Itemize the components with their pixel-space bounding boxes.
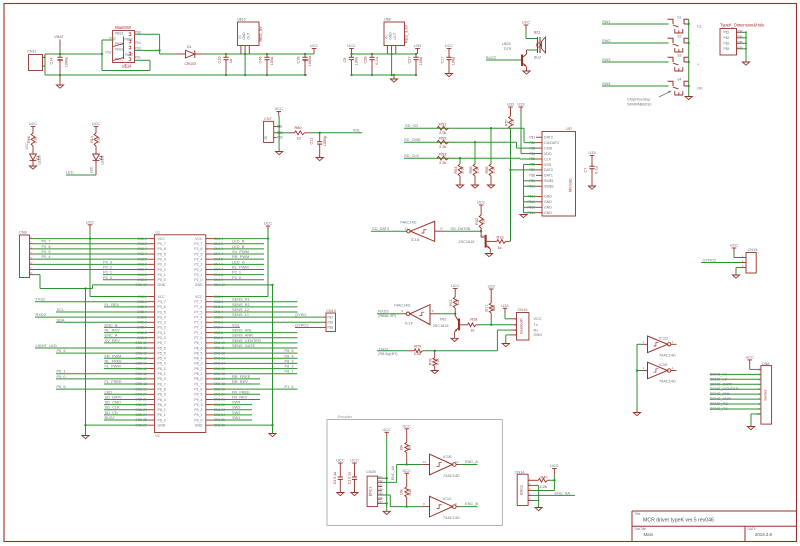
svg-text:R32: R32	[475, 218, 479, 225]
svg-text:GYRO2: GYRO2	[703, 257, 717, 262]
svg-text:P1_7: P1_7	[194, 382, 202, 386]
svg-text:BZ1: BZ1	[534, 31, 540, 35]
svg-text:P$8: P$8	[529, 174, 535, 178]
svg-text:P$3: P$3	[328, 326, 334, 330]
svg-text:R56: R56	[485, 167, 489, 174]
svg-text:C3 0.1u: C3 0.1u	[333, 472, 337, 485]
svg-text:U$16: U$16	[237, 18, 246, 22]
svg-text:R52: R52	[439, 137, 446, 141]
svg-text:ENC2: ENC2	[520, 485, 524, 495]
svg-text:PS3: PS3	[110, 37, 116, 41]
svg-text:P5_7: P5_7	[158, 341, 166, 345]
svg-text:P$1: P$1	[724, 31, 730, 35]
svg-text:IC1D: IC1D	[659, 336, 668, 341]
svg-text:UCC: UCC	[445, 43, 454, 48]
svg-text:VOL: VOL	[232, 322, 241, 327]
svg-text:100u: 100u	[419, 57, 423, 65]
svg-text:UCC: UCC	[92, 121, 101, 126]
svg-text:P9_2: P9_2	[194, 408, 202, 412]
svg-text:BUZ: BUZ	[534, 56, 542, 60]
svg-text:S4: S4	[677, 78, 681, 82]
svg-text:GYRO: GYRO	[295, 312, 306, 317]
svg-text:3.3k: 3.3k	[476, 166, 480, 173]
svg-text:P2_2: P2_2	[194, 268, 202, 272]
svg-text:TXD2: TXD2	[36, 297, 46, 302]
svg-text:P0_0: P0_0	[103, 275, 113, 280]
svg-text:P9_5: P9_5	[194, 393, 202, 397]
svg-text:3.3k: 3.3k	[435, 358, 439, 365]
svg-text:C28: C28	[364, 57, 368, 64]
svg-text:SD_CD: SD_CD	[405, 123, 418, 128]
svg-text:LED3: LED3	[100, 156, 104, 165]
svg-text:VOL: VOL	[353, 128, 362, 133]
svg-text:CN20: CN20	[366, 469, 377, 474]
svg-text:P6_5: P6_5	[158, 393, 166, 397]
svg-text:R9: R9	[408, 445, 412, 450]
svg-text:C1 0.1u: C1 0.1u	[347, 472, 351, 485]
svg-text:P0_4: P0_4	[42, 254, 52, 259]
svg-text:P5_3: P5_3	[158, 362, 166, 366]
svg-text:PS6: PS6	[135, 31, 141, 35]
svg-text:P2_3: P2_3	[194, 263, 202, 267]
svg-text:2.2k: 2.2k	[439, 145, 446, 149]
svg-text:CN8: CN8	[762, 361, 770, 366]
svg-text:R10: R10	[408, 489, 412, 496]
svg-text:CN14: CN14	[515, 469, 526, 474]
svg-text:P6_3: P6_3	[158, 403, 166, 407]
svg-text:SW1: SW1	[232, 415, 240, 420]
svg-text:SENS_R1: SENS_R1	[710, 406, 728, 411]
svg-text:Tx: Tx	[534, 322, 538, 327]
svg-text:P0_2: P0_2	[158, 268, 166, 272]
svg-text:R77: R77	[485, 305, 489, 312]
svg-text:MCR driver typeK ver.5 rev046: MCR driver typeK ver.5 rev046	[643, 518, 714, 524]
svg-text:P6_2: P6_2	[158, 408, 166, 412]
svg-text:U33: U33	[507, 102, 514, 107]
svg-text:P9_3: P9_3	[194, 403, 202, 407]
svg-text:UCC: UCC	[274, 106, 283, 111]
svg-text:SCL: SCL	[57, 307, 65, 312]
svg-text:CD/DAT3: CD/DAT3	[544, 141, 559, 145]
svg-text:OK: OK	[697, 86, 703, 91]
svg-text:DAT2: DAT2	[544, 136, 553, 140]
svg-text:C46: C46	[259, 57, 263, 64]
svg-text:R51: R51	[439, 123, 446, 127]
svg-text:P6_7: P6_7	[158, 382, 166, 386]
svg-text:UCC: UCC	[347, 43, 356, 48]
svg-text:P$2: P$2	[328, 321, 334, 325]
svg-text:SD_CMD: SD_CMD	[404, 137, 421, 142]
svg-text:1k: 1k	[470, 328, 474, 332]
svg-text:P$3: P$3	[277, 136, 283, 140]
svg-text:TypeK_Dimension&Hole: TypeK_Dimension&Hole	[720, 23, 765, 28]
svg-text:P0_6: P0_6	[158, 247, 166, 251]
svg-text:IC1B: IC1B	[443, 454, 452, 459]
svg-text:P2_7: P2_7	[194, 242, 202, 246]
svg-text:RXD2: RXD2	[36, 312, 46, 317]
svg-text:VCC: VCC	[158, 237, 166, 241]
svg-text:R14: R14	[90, 136, 94, 143]
svg-text:P7_7: P7_7	[194, 300, 202, 304]
svg-text:2.2k: 2.2k	[439, 161, 446, 165]
svg-text:SENS_GATE: SENS_GATE	[232, 343, 255, 348]
svg-text:P8_4: P8_4	[194, 357, 202, 361]
svg-text:P8_2: P8_2	[194, 367, 202, 371]
svg-text:P7_6: P7_6	[194, 305, 202, 309]
svg-text:100u: 100u	[270, 57, 274, 65]
svg-text:P$3: P$3	[724, 42, 730, 46]
svg-text:IC1F: IC1F	[405, 320, 414, 325]
svg-text:2.2k: 2.2k	[540, 485, 547, 489]
svg-text:12: 12	[405, 227, 409, 231]
svg-text:C16: C16	[218, 57, 222, 64]
svg-text:C7: C7	[584, 168, 588, 173]
svg-text:PS1: PS1	[135, 56, 141, 60]
svg-text:LED: LED	[66, 170, 74, 175]
svg-text:R79: R79	[414, 344, 421, 348]
svg-text:P$2: P$2	[737, 29, 743, 33]
svg-text:P3_7: P3_7	[158, 300, 166, 304]
svg-text:ENC_AA: ENC_AA	[391, 465, 395, 480]
svg-text:CN10: CN10	[518, 307, 529, 312]
svg-text:CN11: CN11	[27, 49, 37, 54]
svg-text:VCC: VCC	[195, 237, 203, 241]
svg-text:SW3: SW3	[602, 57, 610, 62]
svg-text:DAT1: DAT1	[544, 174, 553, 178]
svg-text:PAS3: PAS3	[115, 48, 123, 52]
svg-text:S3: S3	[677, 54, 681, 58]
svg-text:ENC1: ENC1	[369, 487, 373, 497]
svg-text:UCC: UCC	[350, 458, 359, 463]
svg-text:P8_6: P8_6	[194, 346, 202, 350]
svg-text:OUT: OUT	[246, 33, 250, 40]
svg-text:100u: 100u	[452, 57, 456, 65]
svg-text:DAT0: DAT0	[544, 168, 553, 172]
svg-text:P6_4: P6_4	[158, 398, 166, 402]
svg-text:VSS: VSS	[544, 163, 552, 167]
svg-text:3.3k: 3.3k	[492, 166, 496, 173]
svg-text:U33: U33	[588, 150, 595, 155]
svg-text:TR2: TR2	[439, 317, 446, 321]
svg-text:UCC: UCC	[550, 463, 559, 468]
svg-text:P5_5: P5_5	[158, 351, 166, 355]
svg-text:P3_2: P3_2	[158, 326, 166, 330]
svg-text:R55: R55	[469, 167, 473, 174]
svg-text:DATE: DATE	[748, 527, 756, 531]
svg-text:P$1: P$1	[328, 315, 334, 319]
svg-text:ENC_A: ENC_A	[465, 459, 478, 464]
svg-text:ENC_AA: ENC_AA	[555, 490, 571, 495]
svg-text:UCC: UCC	[336, 458, 345, 463]
svg-text:C18: C18	[297, 57, 301, 64]
svg-text:LED5: LED5	[37, 156, 41, 165]
svg-text:GYRO2: GYRO2	[295, 322, 309, 327]
svg-text:PS4: PS4	[135, 41, 141, 45]
svg-text:ENC_B: ENC_B	[465, 501, 478, 506]
svg-text:P7_5: P7_5	[194, 310, 202, 314]
svg-text:P2_4: P2_4	[194, 257, 202, 261]
svg-text:Bluetooth: Bluetooth	[520, 318, 524, 333]
svg-text:BUZZ: BUZZ	[105, 415, 116, 420]
svg-text:U33: U33	[488, 284, 495, 289]
svg-text:D1: D1	[187, 45, 191, 49]
svg-text:P9_1: P9_1	[194, 413, 202, 417]
svg-text:3.3k: 3.3k	[34, 136, 38, 143]
svg-text:SW$2: SW$2	[544, 185, 554, 189]
svg-text:P$6: P$6	[378, 497, 383, 500]
svg-text:IC1C: IC1C	[443, 496, 452, 501]
svg-text:0.1u: 0.1u	[375, 57, 379, 64]
svg-text:100u: 100u	[355, 57, 359, 65]
svg-text:VCC: VCC	[158, 295, 166, 299]
svg-text:10k: 10k	[456, 299, 460, 305]
svg-text:P2_0: P2_0	[194, 278, 202, 282]
svg-text:UCC: UCC	[86, 220, 95, 225]
svg-text:BUZZ: BUZZ	[486, 55, 497, 60]
svg-text:U33: U33	[414, 43, 421, 48]
svg-text:2.2k: 2.2k	[439, 131, 446, 135]
svg-text:CN15: CN15	[748, 247, 758, 252]
svg-text:U33: U33	[517, 102, 524, 107]
svg-text:UCC: UCC	[310, 43, 319, 48]
svg-text:P$4: P$4	[378, 489, 383, 492]
svg-text:SD_DAT0: SD_DAT0	[372, 226, 390, 231]
svg-text:GND: GND	[544, 211, 552, 215]
svg-text:UCC: UCC	[730, 243, 739, 248]
svg-text:P$6: P$6	[737, 34, 743, 38]
svg-text:SW1: SW1	[602, 19, 610, 24]
svg-text:P9_4: P9_4	[194, 398, 202, 402]
svg-text:LED: LED	[89, 166, 93, 173]
svg-text:UCC: UCC	[522, 20, 531, 25]
svg-text:1000p: 1000p	[323, 136, 327, 147]
svg-text:P8_5: P8_5	[194, 351, 202, 355]
svg-text:P$2: P$2	[724, 36, 730, 40]
svg-text:(R8&lt;-BT): (R8&lt;-BT)	[378, 314, 396, 318]
svg-text:MainSW: MainSW	[115, 25, 131, 30]
svg-text:R53: R53	[439, 153, 446, 157]
svg-text:GND: GND	[195, 283, 203, 287]
svg-text:(R8-&gt;BT): (R8-&gt;BT)	[378, 352, 397, 356]
svg-text:R28: R28	[470, 317, 477, 321]
svg-text:FL_REV: FL_REV	[105, 302, 120, 307]
svg-text:R80: R80	[295, 126, 302, 130]
svg-text:P6_1: P6_1	[158, 413, 166, 417]
svg-text:10k: 10k	[482, 218, 486, 224]
svg-text:1k: 1k	[498, 246, 502, 250]
svg-text:R40: R40	[541, 476, 548, 480]
svg-text:IC1A: IC1A	[411, 237, 420, 242]
svg-text:C14: C14	[50, 58, 54, 65]
svg-text:P0_1: P0_1	[158, 273, 166, 277]
svg-text:P$4: P$4	[529, 152, 535, 156]
svg-text:Title: Title	[635, 512, 641, 516]
svg-text:GND: GND	[544, 195, 552, 199]
svg-text:P1_6: P1_6	[285, 384, 294, 389]
svg-text:LIGHT_LED: LIGHT_LED	[36, 343, 57, 348]
svg-text:SD_CLK: SD_CLK	[404, 153, 420, 158]
svg-text:1000u: 1000u	[308, 56, 312, 67]
svg-text:10: 10	[455, 460, 459, 464]
svg-text:3.3k: 3.3k	[461, 166, 465, 173]
svg-text:JS: JS	[264, 136, 268, 140]
svg-text:TR1: TR1	[480, 235, 487, 239]
svg-text:10: 10	[297, 137, 301, 141]
svg-text:P7_0: P7_0	[194, 336, 202, 340]
svg-text:CLK: CLK	[544, 157, 552, 161]
svg-text:RR_REV: RR_REV	[232, 379, 248, 384]
svg-text:R54: R54	[454, 167, 458, 174]
svg-text:P0_3: P0_3	[158, 263, 166, 267]
svg-text:2SC1815: 2SC1815	[433, 324, 449, 328]
svg-text:P$1: P$1	[529, 135, 535, 139]
svg-text:1000u: 1000u	[65, 57, 69, 68]
svg-text:SENS_L1: SENS_L1	[232, 312, 249, 317]
svg-text:P3_1: P3_1	[158, 331, 166, 335]
svg-text:S2: S2	[677, 35, 681, 39]
svg-text:1u: 1u	[229, 59, 233, 63]
svg-text:P7_3: P7_3	[194, 321, 202, 325]
svg-text:U1: U1	[156, 231, 160, 235]
svg-text:SubTitle: SubTitle	[635, 527, 647, 531]
svg-text:GND: GND	[158, 283, 166, 287]
svg-text:P8_1: P8_1	[285, 369, 294, 374]
svg-text:P3_3: P3_3	[158, 321, 166, 325]
svg-text:GND: GND	[544, 200, 552, 204]
svg-text:P0_5: P0_5	[158, 252, 166, 256]
svg-text:Sensor: Sensor	[763, 389, 767, 401]
svg-text:REG_3.3V: REG_3.3V	[404, 24, 408, 43]
svg-text:U$25: U$25	[502, 42, 511, 46]
svg-text:P6_0: P6_0	[158, 418, 166, 422]
svg-text:R11: R11	[449, 299, 453, 306]
svg-text:P0_7: P0_7	[158, 242, 166, 246]
svg-text:FL_PWM: FL_PWM	[105, 364, 121, 369]
svg-text:R57: R57	[504, 119, 508, 126]
svg-text:S1: S1	[677, 16, 681, 20]
svg-text:P6_6: P6_6	[57, 384, 66, 389]
svg-text:REG_5V: REG_5V	[259, 26, 263, 41]
svg-text:FL_FREE: FL_FREE	[105, 379, 122, 384]
svg-text:P$4: P$4	[724, 47, 730, 51]
svg-text:P8_3: P8_3	[194, 362, 202, 366]
svg-text:Encoder: Encoder	[338, 414, 353, 419]
svg-text:P2_1: P2_1	[194, 273, 202, 277]
svg-text:CL: CL	[697, 24, 703, 29]
svg-text:P9_0: P9_0	[194, 418, 202, 422]
svg-text:74AC14D: 74AC14D	[400, 220, 417, 225]
svg-text:C12: C12	[310, 138, 314, 145]
svg-text:R66: R66	[27, 136, 31, 143]
svg-text:13: 13	[440, 227, 444, 231]
svg-text:P8_1: P8_1	[194, 372, 202, 376]
svg-text:P5_4: P5_4	[158, 357, 166, 361]
svg-text:74AC14D: 74AC14D	[394, 303, 411, 308]
svg-text:UCC: UCC	[382, 427, 391, 432]
svg-text:0.1u: 0.1u	[595, 166, 599, 173]
svg-text:SW$1: SW$1	[544, 179, 554, 183]
svg-text:UCC: UCC	[402, 468, 411, 473]
svg-text:UCC: UCC	[477, 200, 486, 205]
svg-text:VCC: VCC	[25, 142, 29, 150]
svg-text:10k: 10k	[399, 445, 403, 451]
svg-text:DTR: DTR	[504, 47, 512, 51]
svg-text:GND: GND	[534, 332, 543, 337]
svg-text:P3_0: P3_0	[158, 336, 166, 340]
svg-text:SD_DAT0B: SD_DAT0B	[450, 226, 470, 231]
svg-text:P3_6: P3_6	[158, 305, 166, 309]
svg-text:RXD2: RXD2	[378, 308, 388, 313]
svg-text:VBAT: VBAT	[54, 34, 64, 39]
svg-text:P8_7: P8_7	[194, 341, 202, 345]
svg-text:P7_2: P7_2	[194, 326, 202, 330]
svg-text:VCC: VCC	[534, 316, 542, 321]
svg-text:P3_5: P3_5	[158, 310, 166, 314]
svg-text:UCC: UCC	[29, 121, 38, 126]
svg-text:GND: GND	[544, 206, 552, 210]
svg-text:PS3: PS3	[135, 47, 141, 51]
svg-text:74AC14D: 74AC14D	[659, 379, 676, 384]
svg-text:CRG03: CRG03	[185, 62, 196, 66]
svg-text:P2_0: P2_0	[232, 275, 242, 280]
svg-text:P2_5: P2_5	[194, 252, 202, 256]
svg-text:CN7: CN7	[264, 116, 272, 121]
svg-text:P6_6: P6_6	[158, 387, 166, 391]
svg-text:U$14: U$14	[121, 64, 132, 69]
svg-text:U$8: U$8	[384, 18, 391, 22]
svg-text:3.3k: 3.3k	[97, 136, 101, 143]
svg-text:PBS2: PBS2	[125, 38, 133, 42]
svg-text:CN8: CN8	[19, 230, 27, 235]
svg-text:OUT: OUT	[393, 33, 397, 40]
svg-text:R13: R13	[497, 236, 504, 240]
svg-text:P5_0: P5_0	[158, 377, 166, 381]
svg-text:P1_6: P1_6	[194, 387, 202, 391]
svg-text:U$7: U$7	[566, 127, 572, 131]
svg-text:P5_1: P5_1	[158, 372, 166, 376]
svg-text:VDD: VDD	[544, 152, 552, 156]
svg-text:UCC: UCC	[264, 221, 273, 226]
svg-text:P5_0: P5_0	[57, 374, 67, 379]
svg-text:47k: 47k	[511, 119, 515, 125]
svg-text:IC1E: IC1E	[659, 362, 668, 367]
svg-text:UCC: UCC	[451, 283, 460, 288]
svg-text:C17: C17	[441, 57, 445, 64]
svg-text:P7_1: P7_1	[194, 331, 202, 335]
svg-text:U1: U1	[156, 434, 160, 438]
svg-text:P$8: P$8	[737, 40, 743, 44]
svg-text:MicroSD: MicroSD	[569, 178, 573, 192]
svg-text:CMD: CMD	[544, 146, 553, 150]
svg-text:UCC: UCC	[402, 424, 411, 429]
svg-text:GND: GND	[195, 423, 203, 427]
svg-text:P5_5: P5_5	[57, 348, 66, 353]
svg-text:VCC: VCC	[195, 295, 203, 299]
svg-text:56k: 56k	[492, 305, 496, 311]
svg-text:P0_4: P0_4	[158, 257, 166, 261]
svg-text:2019.3.9: 2019.3.9	[755, 532, 773, 537]
svg-text:P0_0: P0_0	[158, 278, 166, 282]
svg-text:P3_4: P3_4	[158, 315, 166, 319]
svg-text:P5_6: P5_6	[158, 346, 166, 350]
svg-text:UCC: UCC	[745, 355, 754, 360]
svg-text:R78: R78	[429, 358, 433, 365]
svg-text:P7_4: P7_4	[194, 315, 202, 319]
svg-text:10k: 10k	[399, 489, 403, 495]
svg-text:2SC1815: 2SC1815	[459, 240, 475, 244]
svg-text:74AC14D: 74AC14D	[659, 352, 676, 357]
svg-text:P$9: P$9	[737, 45, 743, 49]
